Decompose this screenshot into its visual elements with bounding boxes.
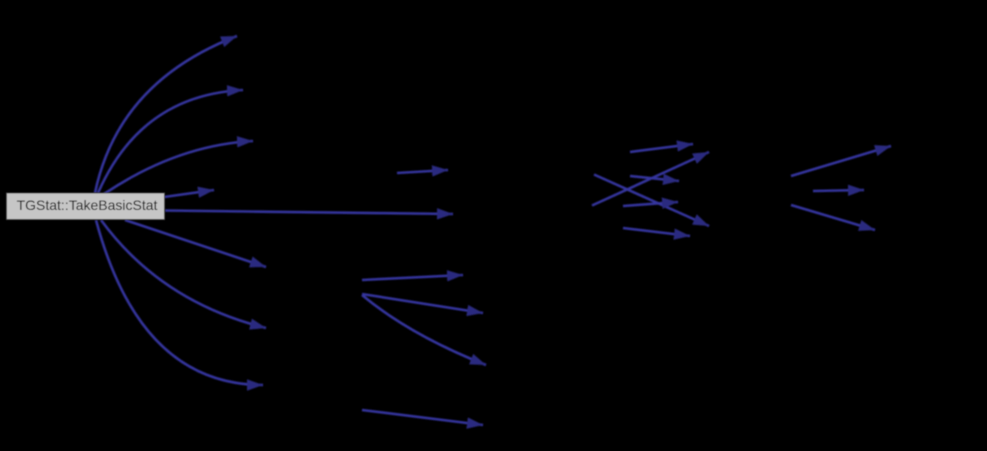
- wire edge E5: [623, 202, 678, 206]
- wire edge U3: [104, 141, 253, 194]
- wire edge M5 (bottom arrow): [362, 410, 483, 425]
- svg-text:TGStat::TakeBasicStat: TGStat::TakeBasicStat: [17, 197, 158, 213]
- wire edge M2: [362, 275, 463, 280]
- wire edge U1 (box top to upper-right arrow): [95, 36, 237, 193]
- wire edge F3: [791, 205, 875, 230]
- wire edge E1: [630, 144, 693, 152]
- wire edge E3: [630, 176, 679, 181]
- wire edge D1: [125, 220, 266, 267]
- wire edge E6: [623, 228, 690, 236]
- wire edge F2: [813, 190, 864, 191]
- wire edge E2 (crossing up): [592, 152, 709, 206]
- wire edge R1 (long horizontal arrow): [165, 211, 453, 215]
- wire edge U4 (short right-up arrow): [164, 190, 214, 197]
- wire edge E4 (crossing down): [594, 175, 709, 227]
- wire edge U2: [98, 90, 243, 193]
- wire edge M4 (s-curve down): [362, 295, 486, 365]
- wire edge D2: [101, 220, 266, 328]
- wire edge F1: [791, 146, 891, 176]
- wire edge D3: [96, 220, 263, 385]
- node TGStat::TakeBasicStat: [7, 193, 165, 220]
- wire edge M1 (small middle arrow): [397, 170, 448, 173]
- wire edge M3: [362, 294, 483, 313]
